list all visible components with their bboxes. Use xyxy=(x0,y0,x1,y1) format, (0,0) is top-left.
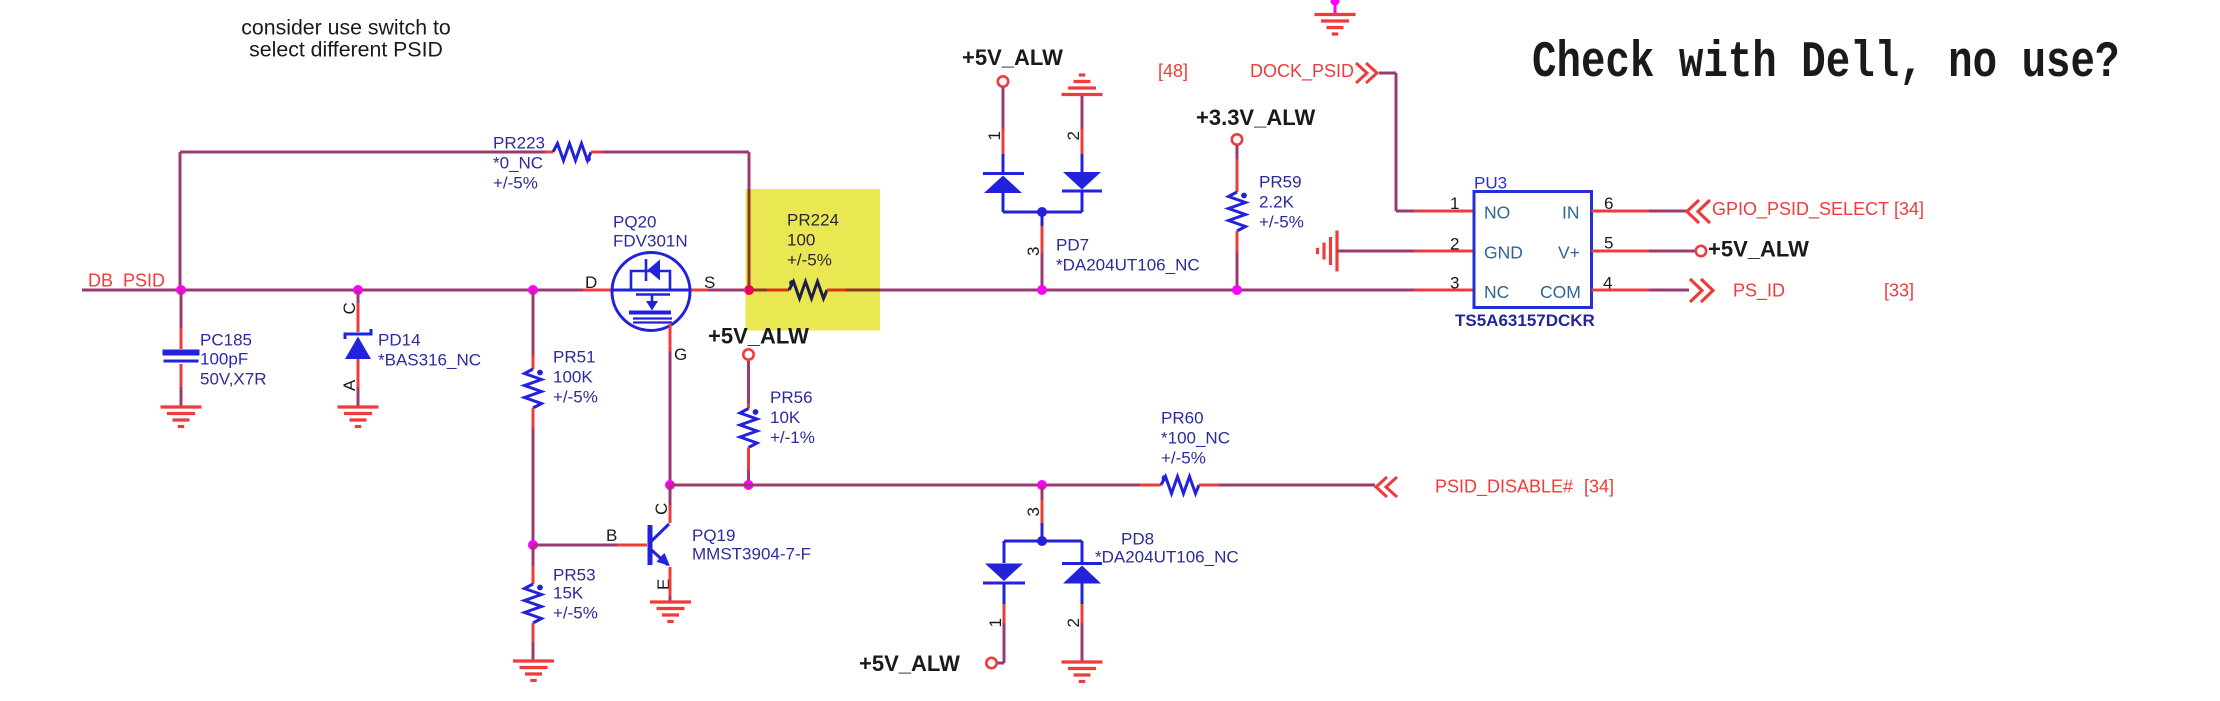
diode D PD8 left cathode bar xyxy=(983,582,1025,585)
svg-text:2.2K: 2.2K xyxy=(1259,193,1295,212)
svg-text:C: C xyxy=(652,503,671,515)
diode D PD14 triangle xyxy=(345,337,371,360)
diode D PD8 common bus xyxy=(1004,540,1082,543)
diode D PD8 right cathode wire xyxy=(1081,541,1084,562)
resistor R PR53 zigzag xyxy=(525,584,542,623)
pin stub PD8 pin2 xyxy=(1081,604,1084,623)
svg-text:3: 3 xyxy=(1024,247,1043,256)
svg-text:PR223: PR223 xyxy=(493,134,545,153)
pin stub PU3 pin4 xyxy=(1592,289,1650,292)
wire main segment right xyxy=(846,289,1414,292)
svg-text:+/-5%: +/-5% xyxy=(493,174,538,193)
svg-text:B: B xyxy=(606,526,617,545)
svg-text:*DA204UT106_NC: *DA204UT106_NC xyxy=(1095,548,1239,567)
svg-text:DB_PSID: DB_PSID xyxy=(88,271,165,292)
svg-text:3: 3 xyxy=(1024,507,1043,516)
pin stub PR223 right xyxy=(591,151,602,154)
diode D PD7 left cathode wire xyxy=(1002,154,1005,172)
wire main segment mid xyxy=(708,289,767,292)
pin stub PC185 bottom xyxy=(180,364,183,387)
svg-text:1: 1 xyxy=(985,131,1004,140)
svg-text:[34]: [34] xyxy=(1894,199,1924,219)
wire psid_disable right xyxy=(1219,484,1375,487)
svg-text:V+: V+ xyxy=(1558,243,1580,263)
junction dot PD8 top xyxy=(1037,480,1047,490)
svg-text:*DA204UT106_NC: *DA204UT106_NC xyxy=(1056,256,1200,275)
resistor R PR59 zigzag xyxy=(1229,192,1246,231)
pin stub PR60 right xyxy=(1199,484,1219,487)
ground PR53 xyxy=(513,661,554,681)
capacitor C PC185 bottom plate xyxy=(164,360,199,363)
svg-text:+5V_ALW: +5V_ALW xyxy=(962,45,1063,70)
svg-text:D: D xyxy=(585,273,597,292)
pin stub PR224 right xyxy=(827,289,846,292)
svg-text:A: A xyxy=(340,379,359,391)
wire main segment left xyxy=(82,289,583,292)
svg-text:+/-5%: +/-5% xyxy=(553,388,598,407)
svg-text:Check with Dell, no use?: Check with Dell, no use? xyxy=(1532,34,2119,91)
wire PD7 pin2 upper xyxy=(1081,96,1084,129)
power symbol +5V_ALW PR56 xyxy=(743,349,753,359)
wire DOCK_PSID to PU3 xyxy=(1396,210,1414,213)
diode D PD7 right triangle xyxy=(1063,172,1101,190)
diode D PD7 left cathode bar xyxy=(983,172,1024,175)
wire pin4 to chevron xyxy=(1649,289,1689,292)
pin dot PR53 xyxy=(537,585,543,591)
op-amp U PU3 box xyxy=(1474,192,1592,308)
svg-text:S: S xyxy=(704,273,715,292)
transistor Q PQ20 lower channel xyxy=(636,293,670,296)
wire DOCK_PSID horizontal xyxy=(1379,72,1396,75)
pin stub PQ19 emitter xyxy=(669,567,672,596)
svg-text:+5V_ALW: +5V_ALW xyxy=(1708,237,1809,262)
svg-text:PR53: PR53 xyxy=(553,566,596,585)
svg-text:[48]: [48] xyxy=(1158,61,1188,81)
wire PD8 pin1 stub xyxy=(997,662,1004,665)
transistor Q PQ19 emitter arrow xyxy=(656,553,670,566)
svg-text:PR59: PR59 xyxy=(1259,173,1302,192)
wire DOCK_PSID vertical xyxy=(1395,73,1398,211)
junction dot PD7 common xyxy=(1037,207,1047,217)
svg-text:G: G xyxy=(674,345,687,364)
wire top horizontal left xyxy=(180,151,545,154)
wire PD14 upper xyxy=(357,290,360,303)
wire PD7 pin1 upper xyxy=(1002,87,1005,129)
svg-text:+5V_ALW: +5V_ALW xyxy=(859,651,960,676)
junction dot gate wire xyxy=(665,480,675,490)
junction dot DB_PSID xyxy=(176,285,186,295)
transistor Q PQ20 channel line xyxy=(613,289,690,292)
wire PQ19 emitter lower xyxy=(669,596,672,601)
wire PD8 pin1 lower xyxy=(1003,623,1006,663)
diode D PD7 left triangle xyxy=(984,176,1022,194)
pin stub PR51 bottom xyxy=(532,408,535,428)
pin stub PQ20 drain xyxy=(583,289,612,292)
diode D PD7 common stub xyxy=(1041,212,1044,226)
resistor R PR51 zigzag xyxy=(525,369,542,408)
pin stub PQ20 gate xyxy=(669,323,672,351)
diode D PD8 left anode wire xyxy=(1003,541,1006,563)
wire top left vertical xyxy=(179,152,182,290)
junction dot PR224 left xyxy=(744,285,754,295)
pin dot PR224 xyxy=(789,280,795,286)
svg-text:2: 2 xyxy=(1450,235,1459,254)
svg-text:NC: NC xyxy=(1484,282,1509,302)
pin stub PR59 top xyxy=(1236,159,1239,192)
transistor Q PQ20 body circle xyxy=(612,253,690,331)
svg-text:PQ19: PQ19 xyxy=(692,526,735,545)
wire PR51 lower xyxy=(532,428,535,545)
junction dot PR51 top xyxy=(528,285,538,295)
svg-text:+/-5%: +/-5% xyxy=(553,604,598,623)
pin stub PD14 anode xyxy=(357,359,360,387)
svg-text:+3.3V_ALW: +3.3V_ALW xyxy=(1196,105,1315,130)
ground PC185 xyxy=(161,407,202,427)
svg-text:consider use switch to: consider use switch to xyxy=(241,16,451,40)
svg-text:PQ20: PQ20 xyxy=(613,213,656,232)
svg-text:3: 3 xyxy=(1450,274,1459,293)
diode D PD7 right cathode bar xyxy=(1062,190,1102,193)
resistor R PR60 zigzag xyxy=(1161,477,1199,494)
pin stub PR53 top xyxy=(532,566,535,584)
svg-text:TS5A63157DCKR: TS5A63157DCKR xyxy=(1455,311,1595,330)
wire psid_disable left xyxy=(670,484,1140,487)
transistor Q PQ19 base bar xyxy=(648,525,653,565)
wire PQ19 collector upper xyxy=(669,485,672,505)
wire PC185 upper xyxy=(180,290,183,328)
transistor Q PQ19 emitter diag xyxy=(652,550,669,565)
wire PR51 upper xyxy=(532,290,535,355)
wire PD7 pin3 lower xyxy=(1041,253,1044,290)
svg-text:2: 2 xyxy=(1064,618,1083,627)
svg-text:*BAS316_NC: *BAS316_NC xyxy=(378,351,481,370)
junction dot PD14 xyxy=(353,285,363,295)
resistor R PR56 zigzag xyxy=(740,409,757,448)
junction dot PR59 main xyxy=(1232,285,1242,295)
svg-text:[34]: [34] xyxy=(1584,477,1614,497)
offpage chevron PS_ID xyxy=(1690,279,1713,302)
pin stub PR53 bottom xyxy=(532,623,535,642)
wire PD14 lower xyxy=(357,387,360,406)
transistor Q PQ20 arrow shaft xyxy=(651,295,654,304)
svg-text:MMST3904-7-F: MMST3904-7-F xyxy=(692,545,811,564)
svg-text:DOCK_PSID: DOCK_PSID xyxy=(1250,61,1354,82)
wire top right vertical xyxy=(748,152,751,290)
power symbol +3.3V_ALW xyxy=(1232,134,1242,144)
diode D PD8 common stub xyxy=(1041,523,1044,541)
diode D PD7 left anode wire xyxy=(1002,193,1005,212)
capacitor C PC185 top plate xyxy=(163,350,200,356)
ground PD14 xyxy=(338,407,379,427)
svg-text:1: 1 xyxy=(986,618,1005,627)
pin dot PR51 xyxy=(537,370,543,376)
wire PR53 upper xyxy=(532,545,535,566)
diode D PD8 right triangle xyxy=(1063,566,1101,584)
svg-text:100pF: 100pF xyxy=(200,350,248,369)
resistor R PR224 zigzag xyxy=(789,282,827,299)
wire top horizontal right xyxy=(602,151,749,154)
svg-text:PD14: PD14 xyxy=(378,331,421,350)
pin stub PR223 left xyxy=(545,151,553,154)
pin dot PR59 xyxy=(1241,193,1247,199)
pin stub PR224 left xyxy=(767,289,789,292)
ground top middle xyxy=(1315,15,1356,35)
wire pin6 to chevron xyxy=(1649,210,1689,213)
diode D PD8 left triangle xyxy=(985,564,1023,582)
svg-text:PR60: PR60 xyxy=(1161,409,1204,428)
svg-text:15K: 15K xyxy=(553,584,584,603)
diode D PD7 common bus xyxy=(1003,211,1082,214)
offpage chevron GPIO_PSID_SELECT xyxy=(1687,200,1710,223)
power symbol +5V_ALW PD7 xyxy=(998,76,1008,86)
wire pin5 to power xyxy=(1649,250,1696,253)
inverted ground PD7 pin2 xyxy=(1062,75,1103,95)
resistor R PR223 zigzag xyxy=(553,144,591,161)
svg-text:[33]: [33] xyxy=(1884,281,1914,301)
svg-text:GND: GND xyxy=(1484,243,1523,263)
svg-text:PS_ID: PS_ID xyxy=(1733,281,1785,302)
transistor Q PQ20 drain-source bracket xyxy=(631,271,670,290)
transistor Q PQ20 gate plate xyxy=(629,311,671,315)
svg-text:PC185: PC185 xyxy=(200,331,252,350)
diode D PD7 right cathode wire xyxy=(1081,191,1084,212)
wire PD8 pin3 upper xyxy=(1041,485,1044,500)
junction dot PD7 main xyxy=(1037,285,1047,295)
diode D PD14 cathode bar xyxy=(345,329,371,339)
power symbol +5V_ALW PD8 xyxy=(986,658,996,668)
svg-text:PD7: PD7 xyxy=(1056,236,1089,255)
wire PU3 pin2 xyxy=(1337,250,1414,253)
wire PR59 upper xyxy=(1236,145,1239,159)
pin stub PR59 bottom xyxy=(1236,231,1239,252)
transistor Q PQ19 collector diag xyxy=(652,524,670,541)
pin stub PQ19 base xyxy=(617,544,647,547)
pin stub PU3 pin6 xyxy=(1592,210,1650,213)
diode D PD7 right anode wire xyxy=(1081,154,1084,172)
pin stub PD7 pin1 xyxy=(1002,129,1005,154)
pin dot PR60 xyxy=(1162,475,1168,481)
pin stub PU3 pin5 xyxy=(1592,250,1650,253)
pin stub PU3 pin3 xyxy=(1414,289,1474,292)
svg-text:PSID_DISABLE#: PSID_DISABLE# xyxy=(1435,477,1573,498)
ground PQ19 emitter xyxy=(650,602,691,622)
pin stub PR56 bottom xyxy=(747,448,750,472)
svg-text:GPIO_PSID_SELECT: GPIO_PSID_SELECT xyxy=(1712,199,1889,220)
svg-text:C: C xyxy=(340,302,359,314)
junction dot PR56 bottom xyxy=(744,480,754,490)
svg-text:COM: COM xyxy=(1540,282,1581,302)
transistor Q PQ20 backgate line1 xyxy=(633,317,672,319)
junction dot base xyxy=(528,540,538,550)
svg-text:*100_NC: *100_NC xyxy=(1161,429,1230,448)
pin stub PD8 pin3 xyxy=(1041,500,1044,523)
diode D PD8 left cathode wire xyxy=(1003,583,1006,604)
svg-text:PR56: PR56 xyxy=(770,388,813,407)
svg-text:2: 2 xyxy=(1064,131,1083,140)
wire stub top ground xyxy=(1334,0,1337,13)
pin dot PR56 xyxy=(753,409,759,415)
pin stub PU3 pin1 xyxy=(1414,210,1474,213)
wire PD8 pin2 lower xyxy=(1081,623,1084,661)
transistor Q PQ20 arrow head xyxy=(646,301,658,311)
pin stub PD8 pin1 xyxy=(1003,604,1006,623)
svg-text:select different PSID: select different PSID xyxy=(249,38,443,62)
diode D PD8 right cathode bar xyxy=(1062,562,1102,565)
pin stub PU3 pin2 xyxy=(1414,250,1474,253)
highlight PR224 xyxy=(746,189,881,331)
transistor Q PQ20 backgate line2 xyxy=(633,321,672,323)
power symbol +5V_ALW PU3 xyxy=(1696,246,1706,256)
junction dot top ground xyxy=(1331,0,1340,6)
svg-text:FDV301N: FDV301N xyxy=(613,232,688,251)
pin stub PR60 left xyxy=(1140,484,1161,487)
svg-text:+/-5%: +/-5% xyxy=(1259,213,1304,232)
pin stub PC185 top xyxy=(180,328,183,349)
offpage chevron PSID_DISABLE# xyxy=(1376,477,1397,497)
ground PU3 pin2 xyxy=(1318,231,1338,272)
junction dot PD8 common xyxy=(1037,536,1047,546)
wire gate vertical xyxy=(669,351,672,485)
svg-text:50V,X7R: 50V,X7R xyxy=(200,370,266,389)
svg-text:PR51: PR51 xyxy=(553,348,596,367)
wire PR56 upper xyxy=(747,361,750,403)
svg-text:1: 1 xyxy=(1450,194,1459,213)
wire PR56 lower xyxy=(747,471,750,485)
pin stub PD14 cathode xyxy=(357,303,360,332)
pin stub PR56 top xyxy=(747,403,750,409)
diode D PD8 right anode wire xyxy=(1081,584,1084,605)
svg-text:PD8: PD8 xyxy=(1121,530,1154,549)
svg-text:100K: 100K xyxy=(553,368,593,387)
transistor Q PQ20 body diode bar xyxy=(645,259,648,281)
pin stub PD7 pin2 xyxy=(1081,129,1084,154)
svg-text:+/-5%: +/-5% xyxy=(1161,449,1206,468)
svg-text:PU3: PU3 xyxy=(1474,174,1507,193)
pin stub PQ20 source xyxy=(690,289,708,292)
transistor Q PQ20 body diode triangle xyxy=(648,260,661,281)
pin stub PD7 pin3 xyxy=(1041,226,1044,253)
wire PC185 lower xyxy=(180,387,183,406)
svg-text:IN: IN xyxy=(1562,203,1580,223)
svg-text:*0_NC: *0_NC xyxy=(493,154,543,173)
pin stub PQ19 collector xyxy=(669,505,672,523)
wire PR53 lower xyxy=(532,642,535,660)
ground PD8 pin2 xyxy=(1062,662,1103,682)
pin stub PR51 top xyxy=(532,355,535,369)
svg-text:NO: NO xyxy=(1484,203,1510,223)
pin dot PR223 xyxy=(585,156,591,162)
svg-text:10K: 10K xyxy=(770,408,801,427)
offpage chevron DOCK_PSID xyxy=(1356,63,1377,83)
wire PR59 lower xyxy=(1236,252,1239,290)
svg-text:+/-1%: +/-1% xyxy=(770,428,815,447)
wire base horizontal xyxy=(533,544,617,547)
